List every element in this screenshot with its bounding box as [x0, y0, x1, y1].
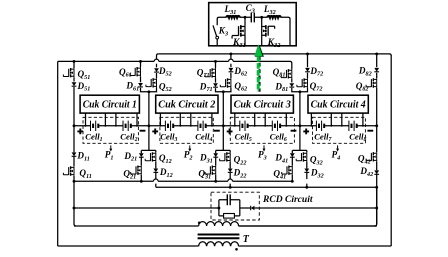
- diode D51: [72, 82, 77, 86]
- wire bus1: [74, 180, 292, 182]
- label P2 arrow: [189, 145, 191, 149]
- diode D22: [228, 169, 233, 173]
- transistor Q51: [63, 68, 74, 77]
- transistor Q52: [146, 78, 157, 87]
- wire line3: [74, 207, 377, 209]
- node line3 right end: [375, 207, 378, 210]
- transistor Q31: [205, 166, 216, 175]
- node boundary T3 meet: [298, 90, 301, 93]
- node rail x231: [229, 52, 232, 55]
- wire Q71 chain: [216, 61, 224, 91]
- node rail x307: [306, 52, 309, 55]
- label minus pack 1: [140, 130, 146, 132]
- node RCD left: [217, 207, 220, 210]
- wire cell row pack 4: [300, 125, 377, 127]
- node bus1 x292: [291, 180, 294, 183]
- battery Cell3: [165, 121, 173, 131]
- wire Y-split at x223: [216, 126, 231, 151]
- battery Cell6: [272, 121, 280, 131]
- node bus1 x141: [140, 180, 143, 183]
- transistor Q41: [282, 166, 293, 175]
- wire D32 chain: [306, 150, 308, 187]
- node top edge x140: [139, 60, 142, 63]
- wire hop D22 over bus1: [228, 179, 233, 181]
- pack 3 dashed box: [230, 117, 294, 143]
- svg-text:Cuk Circuit 1: Cuk Circuit 1: [83, 100, 137, 111]
- wire D82-Q82 chain: [376, 54, 378, 126]
- wire Cuk1 stubs: [85, 113, 87, 126]
- node cell terminal 1: [147, 124, 150, 127]
- label plus pack 2: [152, 129, 158, 135]
- battery Cell5: [240, 121, 248, 131]
- node top edge x215: [214, 60, 217, 63]
- node line2 right end: [375, 186, 378, 189]
- diode D52: [154, 68, 159, 72]
- wire D22 chain: [229, 150, 231, 187]
- diode D21: [139, 153, 144, 157]
- node transformer secondary dot: [235, 248, 238, 251]
- Cuk Circuit 1 box: [80, 95, 139, 113]
- diode D61: [138, 83, 143, 87]
- node top-box left junction: [244, 16, 247, 19]
- wire Cuk4 stubs: [310, 113, 312, 126]
- label P3 arrow: [263, 145, 265, 149]
- pack 4 dashed box: [313, 117, 366, 143]
- diode D62: [229, 68, 234, 72]
- wire K31 branch: [244, 17, 246, 46]
- label P1 arrow: [110, 145, 112, 149]
- transistor Q72: [297, 78, 308, 87]
- wire D21 chain: [140, 150, 142, 181]
- node top-box right junction: [260, 16, 263, 19]
- wire D42 chain bottom: [239, 187, 377, 226]
- wire K32 branch: [261, 17, 263, 46]
- transistor K32: [262, 25, 275, 36]
- battery Cell1: [91, 121, 99, 131]
- wire D72-Q72 chain: [300, 54, 308, 126]
- inductor L32: [267, 16, 280, 17]
- battery Cell8: [349, 121, 357, 131]
- wire hop D12 over bus1: [154, 179, 159, 181]
- diode D72: [305, 68, 310, 72]
- wire Y-split at x299: [292, 126, 307, 151]
- wire bottom line: [58, 245, 392, 247]
- wire Q81 chain: [292, 69, 300, 92]
- diode D42: [374, 170, 379, 174]
- diode D32: [304, 169, 309, 173]
- transistor Q21: [131, 166, 142, 175]
- transistor Q62: [220, 78, 231, 87]
- diode D71: [213, 83, 218, 87]
- transistor Q61: [130, 67, 141, 76]
- diode D12: [153, 169, 158, 173]
- label plus pack 3: [227, 129, 233, 135]
- svg-text:T: T: [243, 234, 250, 245]
- node rail T4: [375, 52, 378, 55]
- node line2 D22: [229, 186, 232, 189]
- node bus1 x215: [214, 180, 217, 183]
- node top edge x74: [73, 60, 76, 63]
- wire Cuk2 stubs: [159, 113, 161, 126]
- wire D62-Q62 chain: [223, 54, 231, 126]
- wire D41 chain: [291, 150, 293, 181]
- label P4 arrow: [337, 145, 339, 149]
- node boundary T2 meet: [222, 90, 225, 93]
- node cell terminal 4: [375, 124, 378, 127]
- label plus pack 1: [77, 129, 83, 135]
- pack 2 dashed box: [160, 117, 213, 143]
- wire Q42-D42 chain: [239, 126, 377, 226]
- wire D12 chain: [155, 150, 157, 187]
- RCD circuit dashed box: [211, 192, 259, 220]
- wire hop D52 over edge: [154, 59, 159, 61]
- node line3 left end: [73, 207, 76, 210]
- battery Cell7: [316, 121, 324, 131]
- transistor Q81: [281, 69, 292, 78]
- svg-text:Cuk Circuit 2: Cuk Circuit 2: [158, 100, 215, 111]
- transistor Q71: [205, 68, 216, 77]
- node transformer primary dot: [198, 222, 201, 225]
- wire D11-Q11 chain: [74, 126, 199, 226]
- wire Q61 chain: [141, 61, 149, 91]
- inductor L31: [226, 16, 239, 17]
- transistor Q82: [366, 78, 377, 87]
- wire cell row pack 1: [74, 125, 149, 127]
- switch K3: [213, 25, 217, 45]
- capacitor C3: [251, 13, 254, 23]
- wire RCD parallel combo: [219, 200, 251, 216]
- node cell terminal 2: [222, 124, 225, 127]
- Cuk Circuit 4 box: [308, 95, 368, 113]
- transistor Q11: [63, 166, 74, 175]
- label minus pack 4: [367, 130, 373, 132]
- wire Cuk3 stubs: [234, 113, 236, 126]
- node line2 D32: [305, 186, 308, 189]
- wire line2: [156, 186, 377, 188]
- transistor K31: [232, 25, 245, 38]
- transformer T secondary coil: [199, 242, 239, 246]
- svg-text:Cuk Circuit 3: Cuk Circuit 3: [234, 100, 291, 111]
- battery Cell2: [123, 121, 131, 131]
- node boundary T1 meet: [147, 90, 150, 93]
- diode D81: [289, 83, 294, 87]
- Cuk Circuit 2 box: [156, 95, 218, 113]
- svg-text:Cuk Circuit 4: Cuk Circuit 4: [311, 100, 366, 111]
- green connection arrow: [258, 56, 260, 91]
- diode D41: [290, 153, 295, 157]
- transistor Q42: [366, 152, 377, 161]
- label minus pack 2: [214, 130, 220, 132]
- wire D52-Q52 chain: [149, 54, 158, 126]
- wire hop D62 over edge: [229, 59, 234, 61]
- diode D82: [374, 68, 379, 72]
- battery Cell4: [198, 121, 206, 131]
- node cell terminal 0: [73, 124, 76, 127]
- label minus pack 3: [291, 130, 297, 132]
- transformer T primary coil: [199, 222, 239, 226]
- pack 1 dashed box: [83, 117, 138, 143]
- capacitor RCD: [227, 194, 230, 205]
- node bus1 left end: [73, 180, 76, 183]
- wire Y-split at x148: [141, 126, 156, 151]
- diode D31: [213, 153, 218, 157]
- node cell terminal 3: [298, 124, 301, 127]
- svg-text:RCD Circuit: RCD Circuit: [262, 194, 313, 205]
- transistor Q32: [296, 152, 307, 161]
- reconfiguration module box: [209, 3, 297, 46]
- wire cell row pack 3: [223, 125, 300, 127]
- wire right edge: [390, 55, 392, 246]
- wire D31 chain: [215, 150, 217, 181]
- transformer T core: [198, 235, 240, 239]
- wire top-box horizontal: [217, 17, 290, 46]
- wire left edge: [57, 61, 59, 246]
- wire Q51 chain: [73, 61, 75, 125]
- wire main top edge: [58, 60, 155, 62]
- Cuk Circuit 3 box: [231, 95, 293, 113]
- label plus pack 4: [303, 129, 309, 135]
- resistor RCD: [224, 214, 235, 219]
- transistor Q12: [145, 152, 156, 161]
- wire upper rail: [158, 54, 391, 56]
- transistor Q22: [220, 152, 231, 161]
- diode RCD: [251, 206, 255, 211]
- wire cell row pack 2: [149, 125, 223, 127]
- diode D11: [72, 152, 77, 156]
